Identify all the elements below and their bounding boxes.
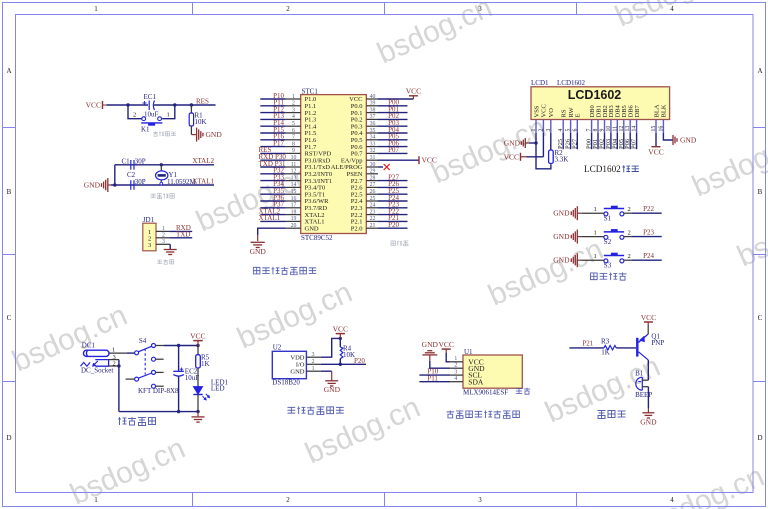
svg-text:VCC: VCC: [641, 313, 656, 322]
switch S4 pole 3: [126, 370, 164, 381]
svg-text:K1: K1: [141, 126, 150, 134]
pin 16 (P3.6/WR) stub: [286, 200, 301, 202]
wire pin3 to ground: [169, 244, 171, 249]
svg-text:36: 36: [370, 121, 376, 127]
wire pin 12: [260, 173, 285, 175]
svg-text:B: B: [7, 188, 12, 196]
svg-text:22: 22: [370, 216, 376, 222]
svg-text:2: 2: [292, 101, 295, 107]
ground stub (MCU): [257, 235, 259, 241]
wire S3 to P24: [624, 259, 631, 261]
pin 33 (P0.6) stub: [366, 146, 378, 148]
pin 13 (P3.3/INT1) stub: [286, 180, 301, 182]
svg-text:GND: GND: [250, 247, 267, 256]
svg-text:RES: RES: [196, 98, 209, 106]
switch S4 dashed link: [144, 349, 146, 375]
power port VCC (BLA): [648, 147, 663, 157]
svg-text:1: 1: [94, 496, 98, 504]
wire pin 7: [260, 139, 285, 141]
DC socket arrow: [92, 361, 98, 367]
wire I/O to P20: [321, 363, 366, 365]
svg-text:4: 4: [558, 129, 564, 132]
resistor R3 (zigzag): [604, 346, 616, 350]
earth ground (buzzer): [642, 413, 654, 418]
push button S2: [604, 229, 624, 239]
pin 1 stub: [535, 120, 537, 134]
svg-text:GND: GND: [553, 256, 570, 265]
resistor R4 (zigzag): [340, 347, 343, 359]
svg-text:P11: P11: [427, 374, 438, 382]
svg-text:2: 2: [628, 229, 631, 236]
svg-text:30P: 30P: [135, 158, 146, 166]
node EC2 top: [177, 344, 180, 347]
svg-text:P25: P25: [557, 139, 564, 149]
wire pins 2/3 join: [118, 360, 120, 366]
svg-text:2: 2: [454, 363, 457, 369]
wire pin 27: [378, 186, 408, 188]
wire pin 15: [260, 193, 285, 195]
wire EC2 top column: [178, 346, 180, 372]
wire R4 bottom to I/O line: [339, 359, 341, 365]
svg-text:5: 5: [566, 129, 572, 132]
wire VSS down: [535, 133, 537, 143]
wire pin 20 to GND: [258, 228, 286, 235]
LED LED1: [193, 387, 210, 401]
ground GND (S3): [553, 253, 581, 267]
wire S2 to P23: [624, 236, 631, 238]
node R4 top: [339, 337, 342, 340]
wire pin 8: [260, 146, 285, 148]
svg-text:3: 3: [478, 496, 482, 504]
wire pin 21: [378, 227, 408, 229]
wire pin 18: [260, 214, 285, 216]
svg-text:GND: GND: [553, 232, 570, 241]
svg-text:17: 17: [291, 203, 297, 209]
node R5 top: [196, 344, 199, 347]
pin 3 (P1.2) stub: [286, 112, 301, 114]
svg-text:VCC: VCC: [648, 148, 663, 157]
resistor R5: [196, 355, 201, 368]
svg-text:1K: 1K: [201, 360, 210, 368]
svg-text:P2.0: P2.0: [351, 225, 363, 232]
svg-text:C1: C1: [122, 158, 131, 166]
svg-text:P17: P17: [273, 139, 284, 147]
resistor R2: [549, 150, 554, 164]
wire pin 36: [378, 125, 408, 127]
push button S3: [604, 253, 624, 263]
node rail R5: [196, 410, 199, 413]
svg-text:14: 14: [632, 126, 638, 132]
wire pin 33: [378, 146, 408, 148]
svg-text:12: 12: [291, 169, 297, 175]
svg-text:P23: P23: [643, 229, 654, 237]
svg-text:1: 1: [454, 356, 457, 362]
wire S1 to P22: [624, 212, 631, 214]
pin 31 (EA/Vpp) stub: [366, 159, 378, 161]
wire pin 28: [378, 180, 408, 182]
pin 3 stub: [156, 243, 170, 245]
pin 30 (ALE/PROG) stub: [366, 166, 378, 168]
wire VCC to R5: [197, 346, 199, 355]
svg-text:1: 1: [112, 347, 115, 354]
node crystal top: [160, 163, 163, 166]
caption 温度采集模块: [287, 406, 343, 414]
wire pin 23: [378, 214, 408, 216]
caption 电源电路: [118, 417, 156, 426]
wire pin 5: [260, 125, 285, 127]
svg-text:1: 1: [162, 226, 165, 232]
switch S4 pole 2 (nc): [152, 357, 164, 361]
caption LCD1602显示: [584, 164, 639, 174]
wire GND pin to earth: [321, 370, 332, 372]
ground GND (S1): [553, 206, 581, 220]
svg-text:16: 16: [291, 196, 297, 202]
wire VCC to pin1: [446, 353, 450, 362]
svg-text:34: 34: [370, 135, 376, 141]
svg-text:15: 15: [291, 189, 297, 195]
wire crystal bottom stub: [160, 180, 162, 183]
wire pin 9: [260, 152, 285, 154]
pin 17 (P3.7/RD) stub: [286, 207, 301, 209]
svg-text:37: 37: [370, 114, 376, 120]
earth ground inverted (MLX): [422, 351, 437, 355]
pin 21 (P2.0) stub: [366, 227, 378, 229]
svg-text:3: 3: [454, 370, 457, 376]
svg-text:S2: S2: [604, 238, 612, 246]
svg-text:GND: GND: [553, 209, 570, 218]
wire P02: [604, 133, 606, 149]
wire TXD: [169, 237, 192, 239]
svg-text:A: A: [757, 67, 762, 75]
svg-text:GND: GND: [640, 417, 657, 426]
pin 3 stub (U1): [450, 374, 463, 376]
svg-text:11: 11: [291, 162, 297, 168]
svg-text:3: 3: [546, 129, 552, 132]
node xtal bus bottom: [113, 183, 116, 186]
svg-text:bsdog.cn: bsdog.cn: [483, 233, 608, 313]
svg-text:XTAL1: XTAL1: [259, 214, 281, 222]
svg-text:GND: GND: [84, 181, 101, 190]
svg-text:DB7: DB7: [634, 104, 641, 117]
pin 29 (PSEN) stub: [366, 173, 378, 175]
svg-text:GND: GND: [504, 139, 521, 148]
wire pin 26: [378, 193, 408, 195]
wire RXD: [169, 230, 192, 232]
switch S4 pole 4 (nc): [152, 384, 164, 388]
svg-text:S4: S4: [139, 337, 147, 345]
node DC pins: [117, 364, 120, 367]
wire XTAL2 line: [115, 164, 214, 166]
wire P01: [597, 133, 599, 149]
wire VCC to LCD VCC pin: [527, 156, 544, 158]
svg-text:28: 28: [370, 175, 376, 181]
wire pin 38: [378, 112, 408, 114]
svg-text:LCD1602: LCD1602: [568, 88, 622, 102]
pin 16 stub: [662, 120, 664, 134]
wire GND to S2: [581, 236, 604, 238]
svg-text:2: 2: [628, 253, 631, 260]
pin 1 (P1.0) stub: [286, 98, 301, 100]
svg-text:10K: 10K: [195, 118, 207, 126]
wire pin 14: [260, 186, 285, 188]
wire GND to pin2: [430, 361, 450, 368]
ground stub (power): [197, 412, 199, 417]
svg-text:2: 2: [162, 232, 165, 238]
svg-text:3.3K: 3.3K: [555, 156, 569, 164]
svg-text:GND: GND: [680, 136, 697, 145]
svg-text:7: 7: [292, 135, 295, 141]
svg-text:10: 10: [606, 126, 612, 132]
wire P27: [576, 133, 578, 149]
svg-text:D: D: [757, 434, 762, 442]
wire LED to rail: [197, 395, 199, 412]
wire collector down: [647, 360, 649, 380]
svg-text:TXD: TXD: [176, 230, 190, 238]
wire pin 6: [260, 132, 285, 134]
svg-text:P24: P24: [643, 252, 654, 260]
svg-text:35: 35: [370, 128, 376, 134]
wire VDD to VCC: [321, 338, 340, 357]
wire VCC to emitter: [647, 325, 649, 334]
wire XTAL1 line: [111, 184, 214, 186]
pin 2 stub (U1): [450, 367, 463, 369]
pin 18 (XTAL2) stub: [286, 214, 301, 216]
DC socket barrel: [84, 350, 110, 356]
svg-text:29: 29: [370, 169, 376, 175]
wire net P23: [631, 236, 662, 238]
pin 10 stub: [610, 120, 612, 134]
svg-text:39: 39: [370, 101, 376, 107]
pin 9 (RST/VPD) stub: [286, 152, 301, 154]
wire pin 11: [260, 166, 285, 168]
buzzer pin stubs: [642, 380, 648, 387]
svg-text:2: 2: [312, 359, 315, 365]
svg-text:1: 1: [312, 366, 315, 372]
svg-text:XTAL2: XTAL2: [192, 157, 214, 165]
pin 3 stub (U2): [306, 356, 321, 358]
svg-text:P22: P22: [643, 205, 654, 213]
svg-text:14: 14: [291, 182, 297, 188]
node EC2 bottom: [177, 410, 180, 413]
svg-text:31: 31: [370, 155, 376, 161]
wire DC down to rail: [118, 366, 120, 412]
caption 独立按键: [590, 272, 626, 280]
pin 2 stub: [156, 237, 169, 239]
pin 27 (P2.6) stub: [366, 186, 378, 188]
pin 7 stub: [591, 120, 593, 134]
svg-text:LCD1602: LCD1602: [584, 164, 621, 174]
node I/O: [339, 363, 342, 366]
caption 单片机: [391, 241, 408, 246]
svg-text:DC_Socket: DC_Socket: [81, 367, 113, 375]
wire pin 25: [378, 200, 408, 202]
IC U STC89C52 body: [301, 95, 367, 234]
svg-text:2: 2: [286, 496, 290, 504]
pin 39 (P0.0) stub: [366, 105, 378, 107]
wire pin 39: [378, 105, 408, 107]
wire GND to S1: [581, 212, 604, 214]
svg-text:VO: VO: [548, 108, 555, 118]
svg-text:A: A: [6, 67, 11, 75]
svg-text:4: 4: [292, 114, 295, 120]
pin 38 (P0.1) stub: [366, 112, 378, 114]
ground GND (xtal): [84, 178, 111, 192]
power port VCC (LCD left): [504, 152, 527, 161]
svg-text:D: D: [6, 434, 11, 442]
svg-text:1K: 1K: [601, 349, 610, 357]
svg-text:BLK: BLK: [661, 104, 668, 117]
ground stub (buzzer): [647, 408, 649, 413]
svg-text:GND: GND: [305, 225, 319, 232]
svg-text:1: 1: [167, 112, 170, 119]
resistor R1: [189, 113, 193, 126]
DC socket switch contact frame: [95, 360, 108, 367]
wire pin 37: [378, 118, 408, 120]
svg-text:30P: 30P: [135, 178, 146, 186]
svg-text:1: 1: [594, 229, 597, 236]
pin 2 stub (U2): [306, 363, 321, 365]
svg-text:P20: P20: [354, 357, 365, 365]
pin 8 (P1.7) stub: [286, 146, 301, 148]
wire P21: [569, 347, 604, 349]
svg-text:bsdog.cn: bsdog.cn: [191, 159, 316, 239]
node A: [126, 103, 129, 106]
pin 37 (P0.2) stub: [366, 118, 378, 120]
svg-text:13: 13: [625, 126, 631, 132]
svg-text:12: 12: [619, 126, 625, 132]
wire VSS node down to R2 bottom: [536, 143, 551, 169]
IC U2 DS18B20 body: [272, 351, 306, 378]
wire pin 32: [378, 152, 408, 154]
wire P26: [570, 133, 572, 149]
wire pin 22: [378, 220, 408, 222]
pin 4 stub: [562, 120, 564, 134]
wire pin 30 stub end: [378, 166, 383, 168]
ground stub (DS18B20): [331, 371, 333, 380]
svg-text:EC1: EC1: [144, 93, 157, 101]
svg-text:P07: P07: [631, 138, 638, 149]
IC U1 MLX90614 body: [463, 355, 522, 388]
pin 24 (P2.3) stub: [366, 207, 378, 209]
pin 36 (P0.3) stub: [366, 125, 378, 127]
wire pin 34: [378, 139, 408, 141]
wire P06: [629, 133, 631, 149]
svg-text:25: 25: [370, 196, 376, 202]
wire EC1 to RES: [154, 104, 216, 106]
svg-text:3: 3: [292, 107, 295, 113]
svg-text:bsdog.cn: bsdog.cn: [65, 432, 190, 509]
pin 26 (P2.5) stub: [366, 193, 378, 195]
earth ground (MCU): [251, 242, 265, 247]
svg-text:13: 13: [291, 175, 297, 181]
switch S4 pole 1: [135, 344, 156, 355]
svg-text:GND: GND: [324, 385, 341, 394]
label MLX90614ESF module: [463, 388, 530, 397]
capacitor C2: [131, 180, 134, 190]
pin 32 (P0.7) stub: [366, 152, 378, 154]
crystal bottom pin circle: [160, 182, 163, 185]
pin 1 stub: [156, 230, 169, 232]
pin 14 (P3.4/T0) stub: [286, 186, 301, 188]
pin 9 stub: [604, 120, 606, 134]
svg-text:RS: RS: [561, 109, 568, 117]
wire pin 24: [378, 207, 408, 209]
wire P11 to SDA: [419, 381, 450, 383]
wire S4 to VCC node: [164, 345, 198, 347]
power port VCC (MLX): [438, 340, 453, 352]
push button K1: [141, 117, 162, 126]
svg-text:30: 30: [370, 162, 376, 168]
ground GND (S2): [553, 230, 581, 244]
pin 15 stub: [655, 120, 657, 134]
wire R1 to GND: [190, 126, 192, 135]
svg-text:4: 4: [454, 376, 457, 382]
pin 3 stub (DC1): [109, 359, 119, 361]
caption 单片机最小系统: [253, 267, 316, 275]
pin 4 (P1.3) stub: [286, 118, 301, 120]
svg-text:S1: S1: [604, 215, 612, 223]
svg-text:2: 2: [628, 206, 631, 213]
svg-text:20: 20: [291, 223, 297, 229]
pin 10 (P3.0/RxD) stub: [286, 159, 301, 161]
pin 11 (P3.1/TxD) stub: [286, 166, 301, 168]
svg-text:bsdog.cn: bsdog.cn: [426, 111, 551, 191]
svg-text:18: 18: [291, 209, 297, 215]
svg-text:PNP: PNP: [651, 339, 664, 347]
wire GND to VSS node: [529, 142, 536, 144]
pin 3 stub: [550, 120, 552, 134]
svg-text:4: 4: [670, 496, 674, 504]
pin 6 stub: [576, 120, 578, 134]
connector JD1 body: [143, 223, 156, 251]
wire P00: [591, 133, 593, 149]
svg-text:6: 6: [292, 128, 295, 134]
ground GND (LCD right): [673, 135, 697, 145]
svg-text:SDA: SDA: [468, 377, 484, 386]
svg-text:32: 32: [370, 148, 376, 154]
ground GND (R1): [191, 128, 203, 142]
wire VCC node to R4: [339, 338, 341, 347]
svg-text:bsdog.cn: bsdog.cn: [232, 276, 357, 356]
svg-text:BEEP: BEEP: [635, 391, 652, 399]
caption 蜂鸣器: [598, 411, 626, 419]
wire button branch left: [128, 105, 142, 119]
wire P10 to SCL: [419, 374, 450, 376]
pin 40 (VCC) stub: [366, 98, 378, 100]
earth ground (power): [192, 417, 205, 422]
svg-text:2: 2: [133, 112, 136, 119]
wire R5 to LED: [197, 368, 199, 387]
wire pin 17: [260, 207, 285, 209]
pin 2 (P1.1) stub: [286, 105, 301, 107]
wire pin 19: [260, 220, 285, 222]
wire GND to S3: [581, 259, 604, 261]
earth ground (DS18B20): [325, 381, 338, 386]
wire pin 3: [260, 112, 285, 114]
svg-text:S3: S3: [604, 262, 612, 270]
svg-text:U2: U2: [273, 343, 282, 351]
svg-text:1: 1: [594, 253, 597, 260]
svg-text:STC89C52: STC89C52: [301, 234, 333, 242]
caption 按键复位: [153, 131, 176, 136]
wire VCC to EC1: [107, 104, 149, 106]
wire VCC column: [542, 133, 544, 157]
svg-text:GND: GND: [206, 130, 223, 139]
svg-text:38: 38: [370, 107, 376, 113]
pin 22 (P2.1) stub: [366, 220, 378, 222]
node R1 top: [190, 103, 193, 106]
svg-text:bsdog.cn: bsdog.cn: [732, 194, 768, 274]
